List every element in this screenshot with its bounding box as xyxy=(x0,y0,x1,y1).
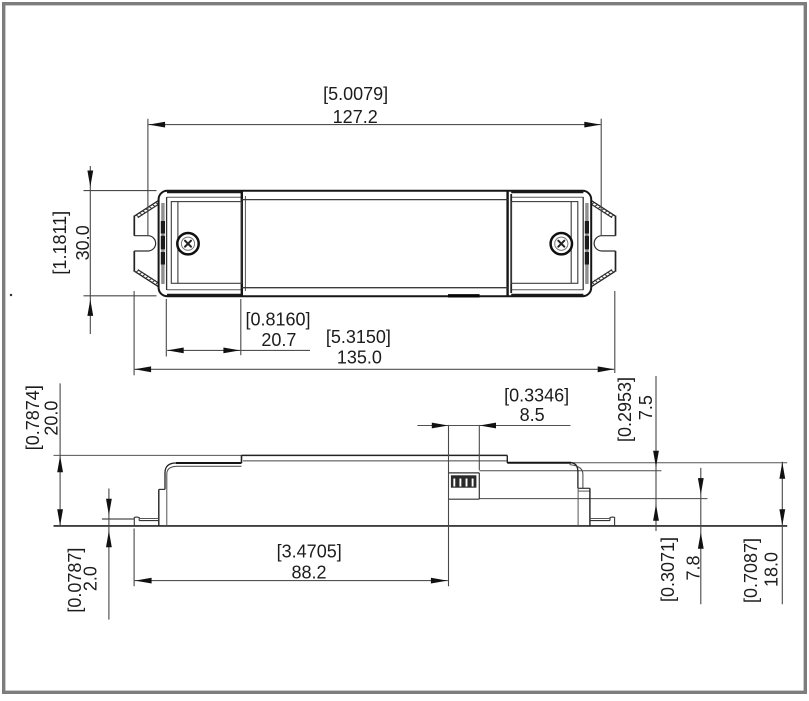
svg-text:135.0: 135.0 xyxy=(337,348,382,368)
svg-text:[3.4705]: [3.4705] xyxy=(277,541,342,561)
svg-text:7.5: 7.5 xyxy=(636,395,656,420)
svg-text:[5.3150]: [5.3150] xyxy=(326,327,391,347)
svg-text:2.0: 2.0 xyxy=(81,566,101,591)
svg-text:88.2: 88.2 xyxy=(291,563,326,583)
svg-text:[0.7874]: [0.7874] xyxy=(23,385,43,450)
svg-text:20.0: 20.0 xyxy=(41,401,61,436)
svg-text:18.0: 18.0 xyxy=(762,552,782,587)
svg-text:[0.2953]: [0.2953] xyxy=(615,377,635,442)
svg-text:20.7: 20.7 xyxy=(261,330,296,350)
svg-text:127.2: 127.2 xyxy=(333,107,378,127)
svg-text:[0.3071]: [0.3071] xyxy=(658,537,678,602)
svg-text:7.8: 7.8 xyxy=(684,555,704,580)
svg-text:[1.1811]: [1.1811] xyxy=(50,211,70,275)
svg-text:[0.3346]: [0.3346] xyxy=(504,386,569,406)
svg-text:[0.7087]: [0.7087] xyxy=(741,538,761,603)
svg-text:[0.8160]: [0.8160] xyxy=(245,310,310,330)
svg-text:30.0: 30.0 xyxy=(73,225,93,260)
svg-text:[5.0079]: [5.0079] xyxy=(323,84,388,104)
svg-text:8.5: 8.5 xyxy=(520,405,545,425)
